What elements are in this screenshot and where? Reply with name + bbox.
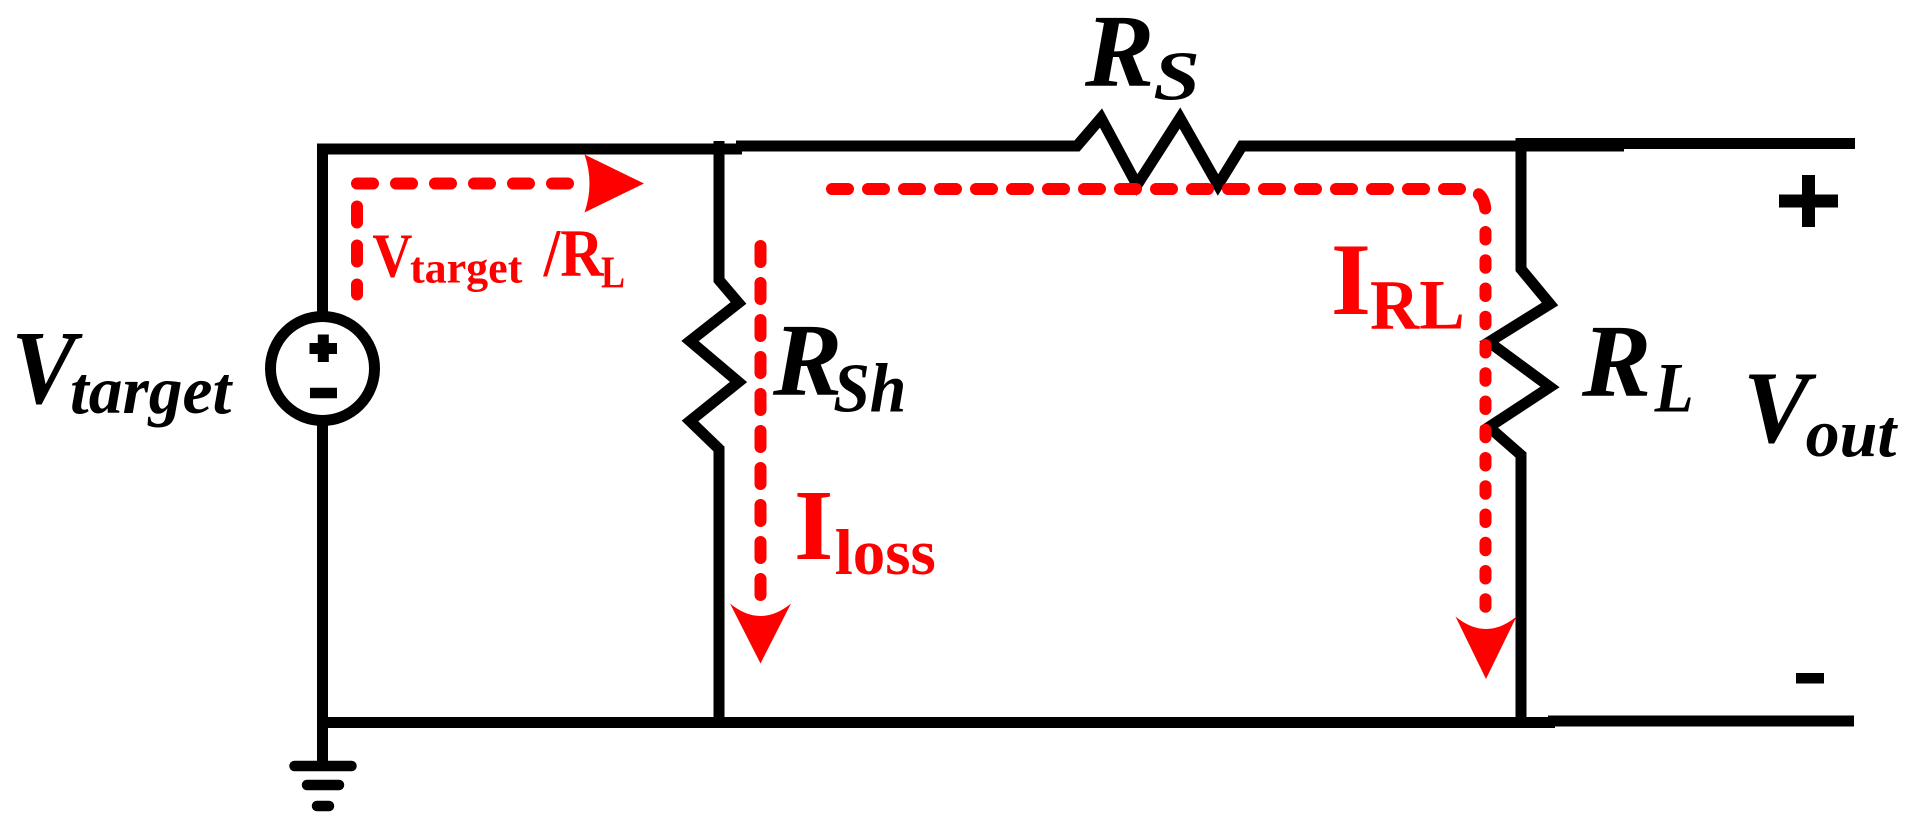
wire top with resistor RS xyxy=(736,118,1624,185)
source minus sign xyxy=(310,388,337,399)
wire bottom xyxy=(317,717,1555,728)
arrowhead I_RL xyxy=(1456,617,1517,680)
svg-text:S: S xyxy=(1153,37,1200,115)
svg-text:L: L xyxy=(601,248,625,298)
label I_RL red xyxy=(1331,223,1465,345)
current arrow I_loss dashed line xyxy=(755,246,767,595)
label + output xyxy=(1779,175,1838,227)
resistor RSh branch xyxy=(690,141,739,722)
label V_target (source) xyxy=(11,310,233,428)
ground xyxy=(295,766,352,806)
svg-text:R: R xyxy=(1084,0,1154,109)
arrowhead I_loss xyxy=(730,604,791,664)
voltage source V_target circle xyxy=(271,317,375,421)
wire left vertical from source to top xyxy=(317,144,328,317)
svg-text:target: target xyxy=(70,353,233,428)
svg-text:I: I xyxy=(794,469,833,581)
label R_L xyxy=(1581,304,1694,427)
wire top right segment xyxy=(1519,138,1855,149)
label V_out xyxy=(1743,351,1898,471)
label Vtarget/RL red xyxy=(372,215,625,297)
svg-text:R: R xyxy=(1581,304,1651,419)
svg-text:R: R xyxy=(772,303,842,418)
svg-text:RL: RL xyxy=(1370,266,1465,345)
wire top left segment xyxy=(317,144,742,155)
arrowhead Vtarget/RL xyxy=(585,155,645,213)
source plus sign xyxy=(310,335,338,363)
svg-text:out: out xyxy=(1806,395,1899,471)
svg-text:L: L xyxy=(1654,349,1694,428)
wire bottom right segment xyxy=(1548,716,1854,727)
svg-text:loss: loss xyxy=(835,517,936,589)
wire left vertical from source to bottom and ground stem xyxy=(317,421,328,766)
svg-text:I: I xyxy=(1331,223,1371,337)
label R_Sh xyxy=(772,303,906,427)
svg-text:/R: /R xyxy=(543,215,604,290)
svg-text:Sh: Sh xyxy=(833,349,906,427)
current arrow Vtarget/RL dashed path xyxy=(357,184,582,295)
current arrow I_RL dashed vertical xyxy=(1480,232,1492,610)
label R_S xyxy=(1084,0,1200,115)
current arrow I_RL dashed horizontal + corner xyxy=(832,189,1486,213)
resistor RL branch xyxy=(1489,138,1550,722)
label - output xyxy=(1796,673,1824,684)
label I_loss red xyxy=(794,469,936,589)
svg-text:V: V xyxy=(372,220,412,290)
svg-text:target: target xyxy=(410,244,523,293)
